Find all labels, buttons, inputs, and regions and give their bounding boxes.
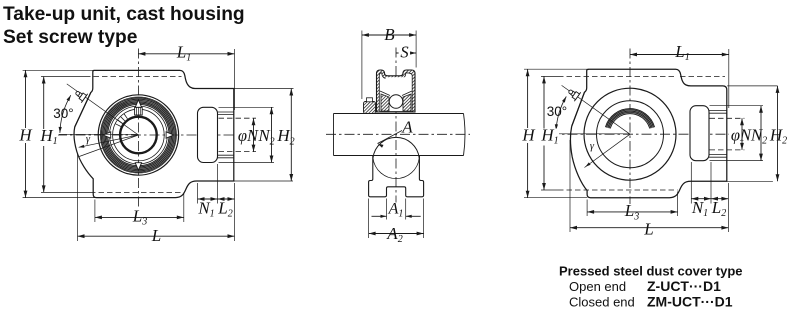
svg-text:Set screw type: Set screw type <box>3 27 138 48</box>
svg-text:Take-up unit, cast housing: Take-up unit, cast housing <box>3 4 245 25</box>
svg-text:30°: 30° <box>53 106 73 121</box>
svg-text:Z-UCT···D1: Z-UCT···D1 <box>647 278 721 294</box>
svg-text:ZM-UCT···D1: ZM-UCT···D1 <box>647 294 733 310</box>
svg-text:H: H <box>18 126 33 145</box>
svg-text:φN: φN <box>238 126 259 145</box>
svg-text:30°: 30° <box>547 104 567 119</box>
svg-text:L: L <box>643 220 653 239</box>
svg-text:S: S <box>400 42 408 61</box>
svg-text:Pressed steel dust cover type: Pressed steel dust cover type <box>559 264 743 279</box>
svg-text:B: B <box>384 25 395 44</box>
svg-text:H: H <box>521 126 536 145</box>
svg-text:φN: φN <box>731 126 752 145</box>
svg-text:L: L <box>151 226 161 245</box>
svg-text:Open end: Open end <box>569 279 626 294</box>
svg-text:Closed end: Closed end <box>569 295 635 310</box>
svg-text:A: A <box>401 118 413 137</box>
